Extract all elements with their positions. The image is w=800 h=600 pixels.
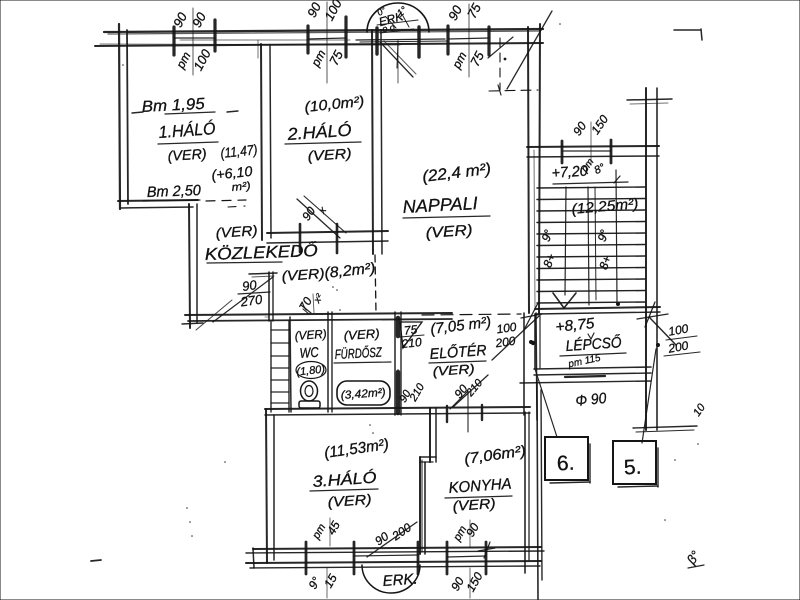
- svg-text:(VER): (VER): [432, 361, 475, 379]
- corner tick stair bottom right: [637, 302, 668, 327]
- toilet symbol: [299, 381, 320, 408]
- svg-text:(3,42m²): (3,42m²): [340, 387, 386, 402]
- dimension 90/270: [238, 277, 270, 310]
- svg-text:(VER): (VER): [452, 495, 496, 514]
- svg-text:100: 100: [667, 321, 689, 338]
- svg-text:ELŐTÉR: ELŐTÉR: [429, 342, 487, 363]
- svg-text:Φ 90: Φ 90: [575, 390, 608, 410]
- dimension pm90 konyha window: [451, 520, 482, 547]
- svg-text:NAPPALI: NAPPALI: [402, 193, 478, 217]
- svg-text:90: 90: [189, 9, 209, 29]
- svg-text:pm: pm: [173, 49, 194, 71]
- wall wc left: [290, 317, 291, 412]
- svg-text:90: 90: [570, 119, 589, 138]
- wall corridor top: [267, 224, 388, 253]
- door jamb corridor 90/270: [249, 272, 277, 321]
- dimension lines top: [193, 2, 469, 83]
- label 2.haló: [285, 121, 361, 144]
- label bath fürdősz: [334, 345, 391, 363]
- wall lépcső left stub: [529, 314, 540, 368]
- svg-text:210: 210: [400, 335, 423, 351]
- window jamb ticks top wall: [174, 17, 489, 57]
- svg-text:(VER): (VER): [294, 327, 327, 343]
- svg-text:15: 15: [321, 571, 340, 590]
- door swing elotér to 3.haló: [451, 375, 488, 407]
- svg-text:9°: 9°: [539, 228, 556, 244]
- svg-text:2.HÁLÓ: 2.HÁLÓ: [286, 121, 352, 144]
- svg-text:150: 150: [463, 570, 485, 595]
- svg-text:(VER): (VER): [327, 491, 372, 510]
- stair treads: [537, 187, 645, 303]
- svg-text:75: 75: [467, 48, 487, 68]
- svg-text:Bm 2,50: Bm 2,50: [147, 182, 202, 201]
- svg-text:(VER): (VER): [307, 145, 352, 164]
- label Bm 2,50: [143, 182, 202, 201]
- wall bottom outer: [246, 547, 544, 568]
- window ticks bottom wall: [306, 542, 486, 574]
- dimension 90/150 bottom left: [306, 568, 340, 598]
- svg-text:pm: pm: [449, 49, 470, 71]
- wall divider 3.haló/konyha: [420, 408, 436, 554]
- wall elotér bottom / rooms top: [265, 405, 530, 422]
- stair direction labels left: [539, 228, 558, 270]
- svg-text:10: 10: [691, 401, 708, 419]
- dimension 90/150 bottom right: [448, 568, 486, 598]
- label 3.haló: [310, 468, 378, 491]
- window sill lines top wall: [174, 38, 489, 40]
- dashed line elotér top: [422, 314, 521, 315]
- svg-text:8+: 8+: [540, 252, 558, 270]
- wall between room1 and room2: [258, 40, 271, 240]
- wall 3.haló left: [266, 409, 274, 563]
- wall konyha right: [525, 412, 529, 573]
- tick right wall lower: [633, 426, 697, 432]
- svg-text:m²): m²): [231, 180, 252, 194]
- stair direction labels right: [595, 228, 614, 272]
- wall left outer: [119, 24, 128, 209]
- svg-text:75: 75: [326, 47, 346, 67]
- dimension stair window 90/150: [570, 112, 611, 165]
- svg-text:90: 90: [445, 2, 465, 22]
- door swing elotér to konyha: [397, 381, 468, 432]
- label nappali: [402, 193, 490, 218]
- wall top outer: [95, 29, 543, 46]
- tick below stair window: [614, 176, 620, 183]
- label 1.haló: [158, 119, 218, 144]
- corner tick bottom right: [478, 542, 495, 558]
- box 6: [535, 369, 590, 483]
- door swing arc terrace entrance: [367, 3, 429, 77]
- label elotér: [429, 342, 487, 363]
- svg-text:+8,75: +8,75: [555, 315, 596, 336]
- svg-text:90: 90: [463, 520, 482, 539]
- svg-text:x: x: [316, 205, 329, 217]
- door swing lépcső right 100/200: [650, 318, 700, 356]
- wall corridor bottom / wc top: [185, 313, 452, 321]
- wall shaft right of konyha: [537, 380, 542, 599]
- dimension 100/200 elotér: [492, 316, 539, 360]
- svg-text:75: 75: [464, 0, 484, 20]
- svg-text:LÉPCSŐ: LÉPCSŐ: [565, 334, 622, 355]
- svg-text:200: 200: [389, 520, 415, 544]
- svg-text:(11,47): (11,47): [220, 141, 258, 161]
- svg-text:(11,53m²): (11,53m²): [323, 436, 390, 462]
- door triangle 75/210: [400, 322, 424, 351]
- wall stair bottom: [535, 307, 660, 314]
- flue shaft symbol dashed with diagonal: [488, 11, 552, 95]
- label +6,10 m2: [211, 163, 254, 194]
- svg-text:1.HÁLÓ: 1.HÁLÓ: [158, 119, 216, 142]
- wall between room2 and nappali: [372, 30, 382, 254]
- svg-text:ERK.: ERK.: [382, 571, 418, 590]
- svg-text:210: 210: [407, 381, 428, 405]
- wall stair right: [627, 88, 672, 430]
- balcony door swing + dim 90/200: [367, 520, 417, 557]
- svg-text:(VER): (VER): [215, 222, 258, 241]
- label közlekedő: [204, 241, 318, 264]
- wall wc right: [328, 312, 332, 412]
- label lépcső: [560, 333, 626, 371]
- wall bathroom right with jambs: [395, 312, 401, 415]
- wall lépcső bottom double: [520, 367, 651, 383]
- dashed wall continuation below room2 wall: [375, 255, 376, 313]
- dimension text window3 90/75: [445, 0, 487, 71]
- dimension text window2 90/100: [304, 0, 346, 70]
- svg-text:KÖZLEKEDŐ: KÖZLEKEDŐ: [204, 241, 318, 264]
- shaft ladder hatch: [271, 321, 289, 412]
- svg-text:(VER): (VER): [281, 265, 325, 284]
- wall nappali right / stair left: [528, 24, 540, 313]
- label konyha: [445, 476, 512, 498]
- dimension text window1 90/100: [170, 9, 214, 73]
- svg-text:150: 150: [588, 112, 611, 137]
- svg-text:45: 45: [324, 518, 343, 537]
- svg-text:(7,06m²): (7,06m²): [463, 442, 527, 467]
- door swing corridor top: [297, 196, 346, 238]
- wall step bottom-left (Bm): [118, 200, 246, 328]
- svg-text:FÜRDŐSZ: FÜRDŐSZ: [334, 345, 382, 362]
- svg-text:KONYHA: KONYHA: [448, 476, 512, 497]
- speckles: [122, 23, 699, 537]
- svg-text:100: 100: [321, 0, 345, 23]
- svg-text:(10,0m²): (10,0m²): [304, 94, 365, 116]
- svg-text:270: 270: [239, 292, 264, 310]
- door swing corridor to hall: [196, 277, 273, 330]
- svg-text:(7,05 m²): (7,05 m²): [429, 314, 492, 338]
- svg-text:3.HÁLÓ: 3.HÁLÓ: [312, 468, 377, 491]
- door threshold top (terrace door): [356, 39, 448, 42]
- dimension 70 wc door: [296, 292, 326, 314]
- label 30 bottom right: [683, 548, 704, 568]
- label Bm 1,95: [132, 96, 238, 116]
- wall elotér right: [524, 313, 537, 420]
- svg-text:100: 100: [190, 46, 214, 73]
- balcony arc: [362, 565, 420, 593]
- wall stair top: [527, 140, 659, 163]
- corner mark top right: [674, 29, 702, 40]
- svg-text:WC: WC: [299, 344, 320, 361]
- svg-text:5.: 5.: [623, 456, 642, 480]
- corner tick stair bottom left: [521, 303, 542, 330]
- svg-text:pm: pm: [308, 47, 329, 69]
- svg-text:(22,4 m²): (22,4 m²): [421, 161, 492, 186]
- label +7,20 pm 8: [551, 157, 628, 184]
- svg-text:(8,2m²): (8,2m²): [324, 260, 376, 282]
- label wc 180: [296, 362, 326, 379]
- small dash left bottom: [91, 560, 101, 561]
- svg-text:(VER): (VER): [343, 327, 380, 343]
- stair railing lines: [588, 170, 617, 305]
- svg-text:9°: 9°: [595, 228, 612, 244]
- svg-text:6.: 6.: [556, 452, 575, 476]
- svg-text:(VER): (VER): [425, 222, 473, 242]
- bathtub symbol: [337, 381, 390, 405]
- svg-text:(VER): (VER): [167, 145, 207, 164]
- stair walking line with down arrow: [553, 187, 620, 308]
- dimension pm45 3.haló window: [310, 518, 343, 546]
- svg-text:β°: β°: [683, 548, 703, 568]
- box 5: [613, 349, 658, 487]
